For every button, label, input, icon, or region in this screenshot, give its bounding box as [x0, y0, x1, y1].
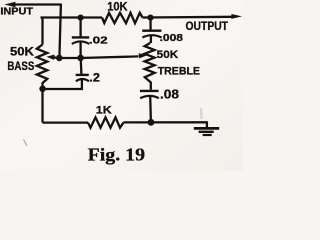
wire top main left [42, 18, 102, 19]
input arrow head [4, 2, 15, 7]
capacitor C3 .008 [142, 30, 161, 32]
ground bar 3 [203, 134, 212, 136]
svg-text:.2: .2 [89, 71, 100, 84]
svg-text:.02: .02 [89, 36, 108, 47]
capacitor C1 .02 [72, 36, 89, 38]
wire C2 bottom corner to bass bottom [43, 79, 82, 89]
svg-text:50K: 50K [10, 45, 34, 59]
potentiometer treble 50K zigzag [145, 43, 155, 90]
svg-text:50K: 50K [157, 49, 179, 61]
potentiometer bass 50K body lead [41, 18, 43, 45]
svg-text:.008: .008 [160, 33, 184, 44]
capacitor C2 .2 [76, 74, 89, 76]
wire C4 to bottom node [149, 96, 152, 123]
ground bar 2 [199, 131, 214, 133]
node A junction dot [78, 15, 84, 21]
bass wiper arrow [53, 56, 60, 59]
capacitor C4 .08 [140, 90, 159, 92]
svg-text:BASS: BASS [7, 59, 34, 73]
treble wiper arrow [139, 53, 148, 58]
wire bottom left [43, 121, 89, 123]
wire bass bottom down [41, 89, 43, 123]
ground stub [206, 122, 208, 127]
svg-text:TREBLE: TREBLE [158, 66, 200, 78]
potentiometer bass 50K zigzag [37, 45, 48, 89]
wire C1 to mid node [79, 41, 81, 58]
wire treble chain top [149, 18, 151, 30]
svg-text:10K: 10K [107, 0, 128, 13]
ground bar 1 [194, 127, 219, 130]
faint smudge above ground [200, 108, 203, 119]
wire wiper bus [59, 56, 138, 58]
wire mid node down [80, 58, 83, 74]
bottom right node dot [148, 119, 155, 126]
wire node A down [79, 18, 81, 37]
bass bottom node dot [39, 86, 46, 93]
stray print mark bottom left [24, 140, 28, 147]
wire input vertical down to bass wiper node [59, 4, 61, 58]
wire bottom right [124, 121, 208, 123]
wiper bus mid node dot [77, 55, 84, 62]
bass wiper node dot [56, 55, 63, 62]
resistor R2 1K [88, 117, 124, 127]
wire top main right to output [143, 16, 234, 19]
output arrow head [231, 14, 242, 19]
svg-text:.08: .08 [160, 88, 179, 102]
svg-text:OUTPUT: OUTPUT [186, 21, 229, 33]
svg-text:1K: 1K [96, 104, 112, 116]
resistor R1 10K [102, 13, 143, 23]
svg-text:INPUT: INPUT [0, 7, 33, 18]
svg-text:Fig. 19: Fig. 19 [88, 145, 146, 165]
wire input horizontal [12, 3, 61, 5]
wire C3 to treble pot [150, 35, 152, 43]
node B junction dot [147, 15, 153, 21]
